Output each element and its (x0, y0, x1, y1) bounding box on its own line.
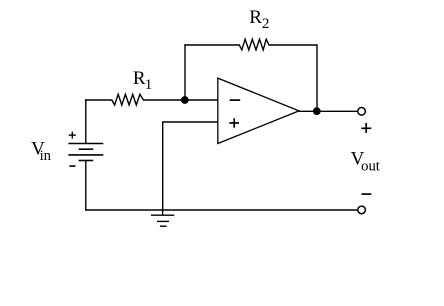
output minus polarity mark (362, 193, 372, 195)
label Vin (31, 138, 52, 164)
svg-text:1: 1 (145, 77, 153, 93)
wire battery top to R1 level (85, 99, 87, 143)
wire non-inverting input (163, 122, 218, 211)
svg-text:R: R (249, 7, 262, 28)
voltage source Vin (battery) (68, 144, 103, 161)
label R1 (133, 68, 152, 93)
resistor R1 (85, 94, 218, 105)
battery minus polarity mark (69, 165, 75, 167)
svg-text:in: in (40, 148, 52, 164)
node A junction dot (inverting input) (181, 96, 189, 104)
op-amp U1 (218, 78, 299, 143)
bottom rail wire (85, 209, 357, 211)
resistor R2 (184, 39, 317, 50)
ground (151, 210, 174, 226)
svg-text:2: 2 (262, 16, 270, 32)
wire node A up to feedback (184, 44, 186, 100)
output terminal top (358, 108, 366, 116)
label Vout (351, 149, 380, 175)
output terminal bottom (358, 206, 366, 214)
op-amp inverting input mark (230, 99, 241, 101)
output node junction dot (313, 107, 321, 115)
wire feedback down to output node (316, 44, 318, 111)
wire op-amp output (299, 110, 357, 112)
svg-text:out: out (361, 158, 380, 174)
wire battery bottom to bottom rail (85, 161, 87, 211)
label R2 (249, 7, 269, 32)
output plus polarity mark (361, 123, 371, 133)
op-amp non-inverting input mark (229, 118, 239, 127)
battery plus polarity mark (69, 132, 76, 139)
